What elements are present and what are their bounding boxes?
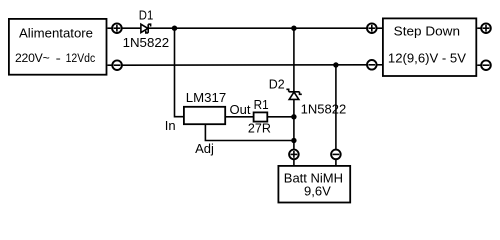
terminal + of battery <box>289 150 299 166</box>
power supply box Alimentatore <box>9 19 107 75</box>
resistor R1 <box>254 112 268 121</box>
svg-text:Step Down: Step Down <box>394 24 460 39</box>
svg-text:220V~: 220V~ <box>15 51 50 65</box>
svg-text:9,6V: 9,6V <box>304 183 331 198</box>
regulator U1 LM317 <box>184 107 225 124</box>
svg-text:1N5822: 1N5822 <box>301 101 347 116</box>
svg-text:Alimentatore: Alimentatore <box>19 26 93 41</box>
svg-text:D2: D2 <box>269 76 285 91</box>
svg-text:12Vdc: 12Vdc <box>66 51 96 65</box>
wire D2 anode down to battery + terminal <box>293 99 295 150</box>
wire R1 to output node <box>267 116 294 118</box>
wire top rail: D1 cathode to Step Down + input <box>148 27 367 29</box>
wire D2 branch: top rail down to D2 cathode <box>293 28 295 91</box>
node junction top rail to D2 branch <box>291 26 296 31</box>
value label 220V~ - 12Vdc <box>15 51 95 65</box>
node junction R1 / D2 / battery + <box>291 114 296 119</box>
node junction bottom rail to battery - drop <box>333 62 338 67</box>
svg-text:Out: Out <box>230 102 251 117</box>
terminal - of Step Down input <box>367 60 383 70</box>
wire from top rail down to LM317 In pin <box>175 28 185 117</box>
terminal - of Alimentatore <box>108 60 122 70</box>
svg-text:In: In <box>165 118 176 133</box>
diode D2 (Schottky, pointing up) <box>286 89 301 99</box>
wire bottom rail down to battery - terminal <box>335 65 337 150</box>
svg-text:27R: 27R <box>248 121 271 136</box>
converter box Step Down <box>383 18 476 76</box>
terminal + of Step Down input <box>367 23 383 33</box>
battery box Batt NiMH <box>278 166 350 203</box>
svg-text:-: - <box>56 51 61 65</box>
svg-text:LM317: LM317 <box>186 90 226 105</box>
diode D1 (Schottky) <box>141 24 151 33</box>
wire LM317 Adj pin to battery + branch <box>205 125 294 141</box>
wire bottom rail: supply - to Step Down - input <box>122 64 368 66</box>
wire LM317 Out pin to R1 <box>225 116 253 118</box>
node junction top rail to LM317 In drop <box>172 26 177 31</box>
svg-text:1N5822: 1N5822 <box>123 35 170 50</box>
node junction Adj / battery + <box>291 138 296 143</box>
svg-text:12(9,6)V - 5V: 12(9,6)V - 5V <box>388 50 466 65</box>
terminal - of battery <box>331 150 341 166</box>
svg-text:R1: R1 <box>254 97 269 112</box>
terminal + of Alimentatore <box>108 23 122 33</box>
svg-text:D1: D1 <box>139 8 154 23</box>
wire top rail: supply + to D1 anode <box>122 27 142 29</box>
terminal + of Step Down output <box>477 23 491 33</box>
terminal - of Step Down output <box>477 60 491 70</box>
svg-text:Adj: Adj <box>195 141 214 156</box>
